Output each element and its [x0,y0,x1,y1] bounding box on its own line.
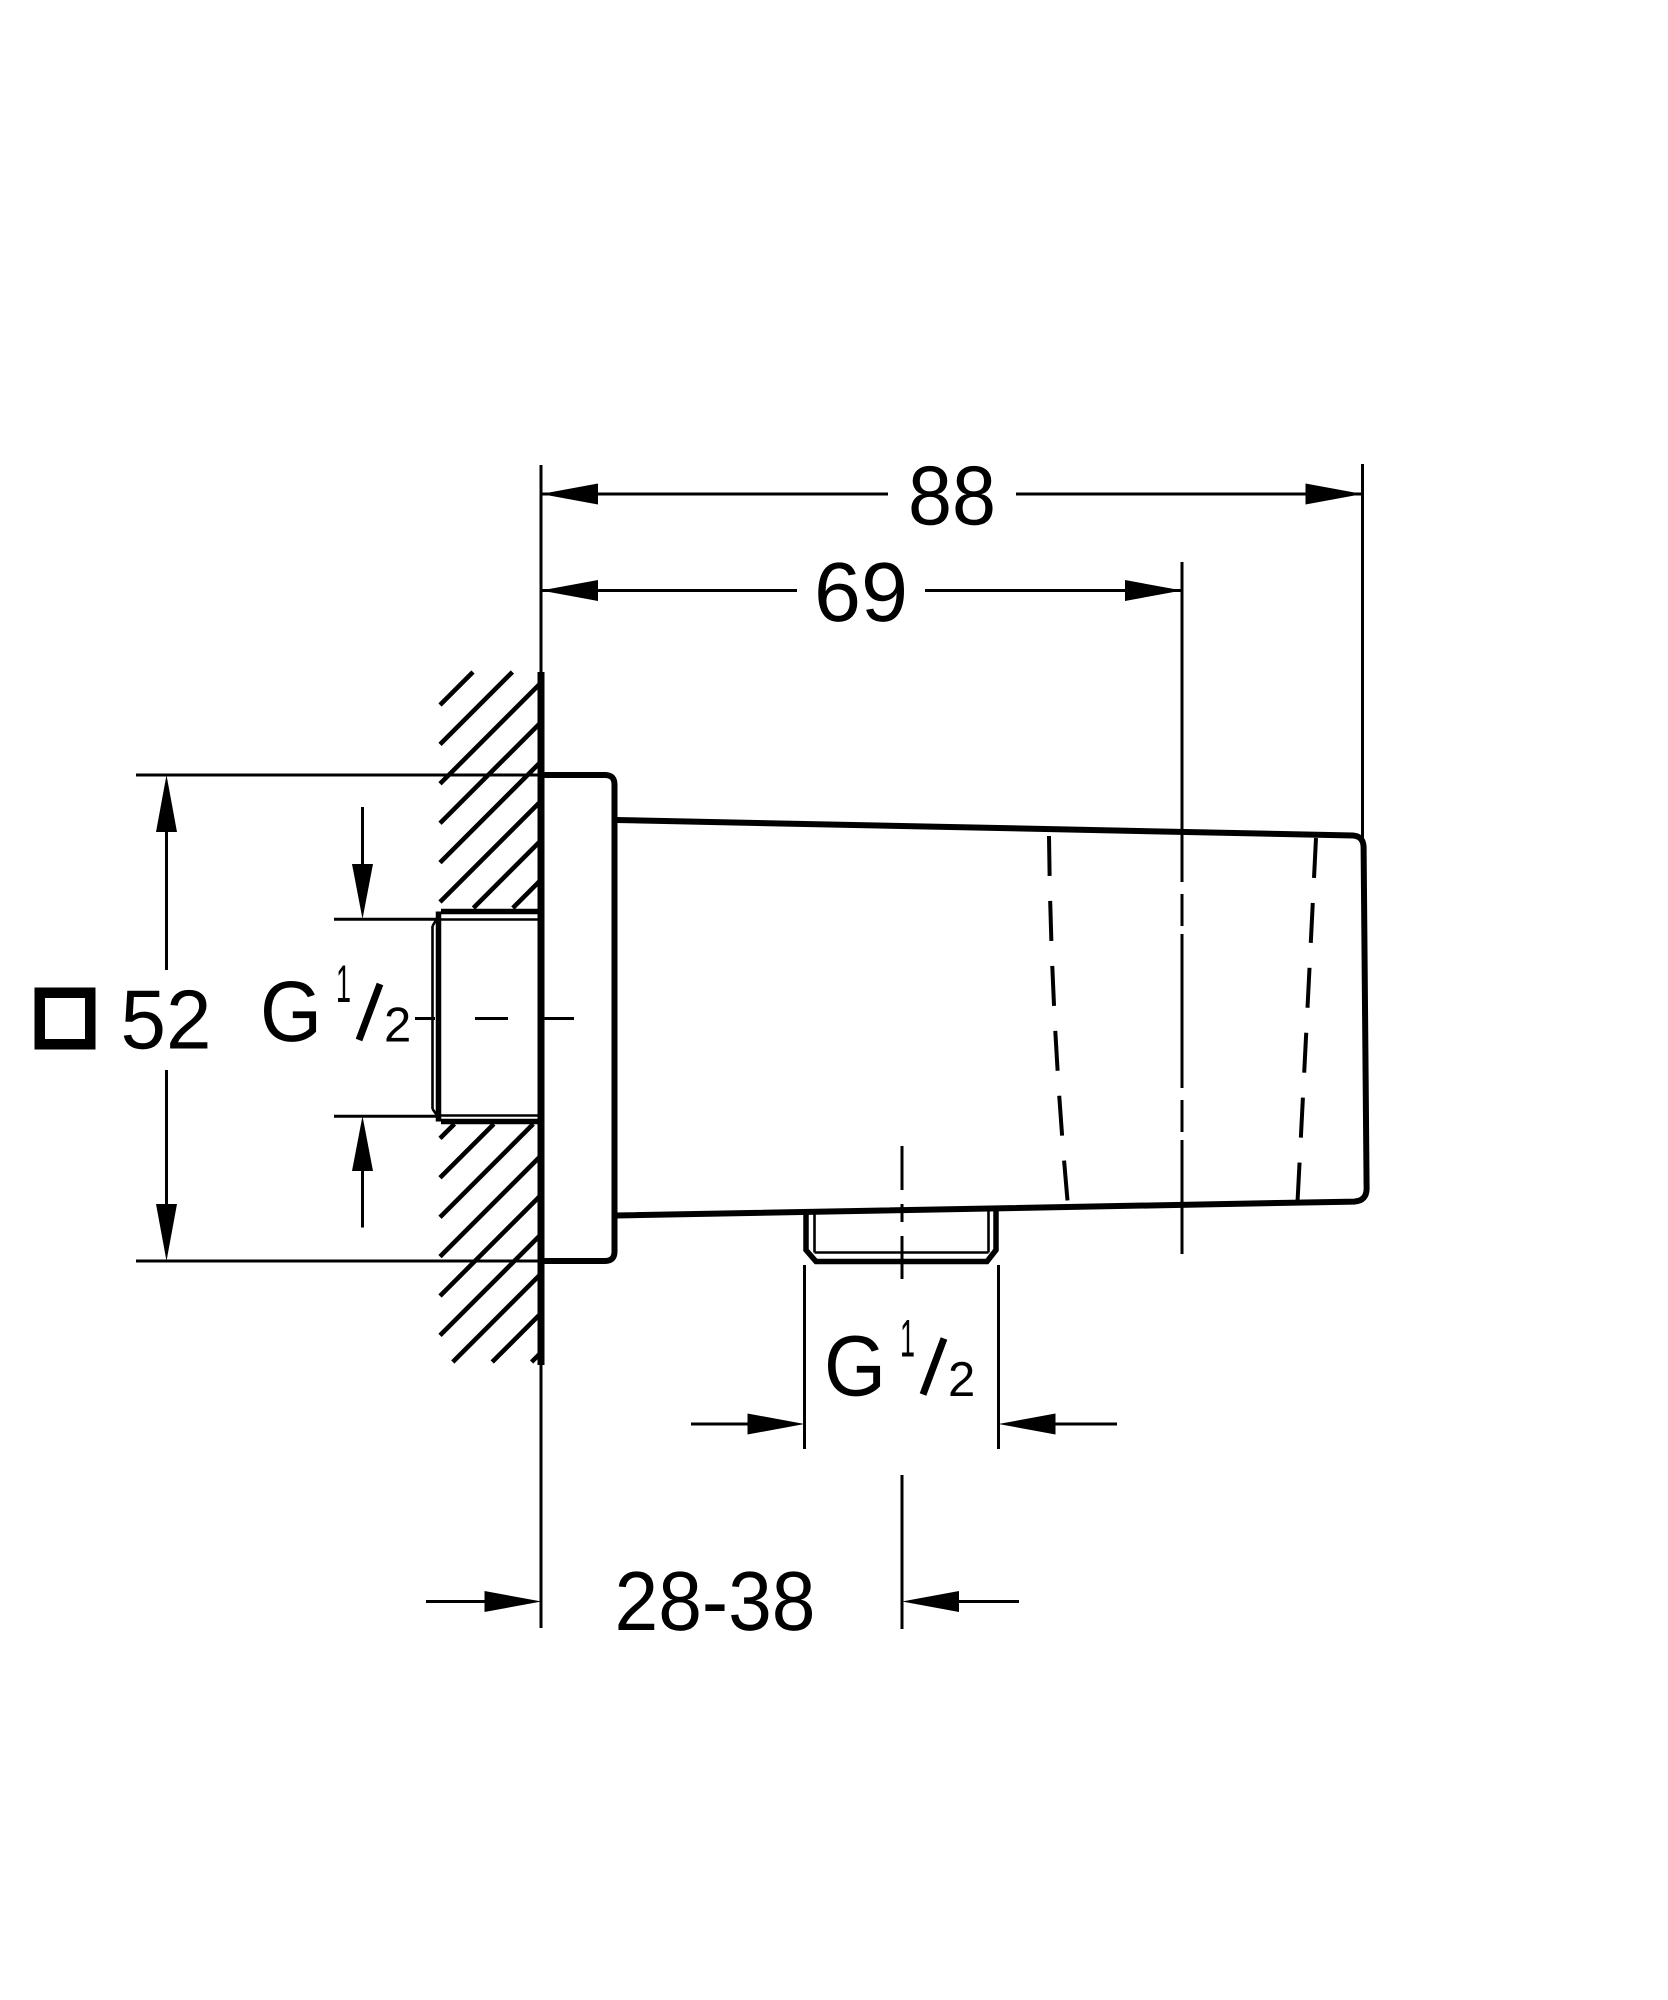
dimension 69 left arrowhead [541,580,598,601]
dimension 88 line right segment [1016,493,1363,496]
dimension 88 right extension line [1361,464,1364,842]
outlet width dimension left extension line [803,1265,806,1449]
thread OD dimension upper extension line [334,918,440,921]
outlet centerline upper [901,1146,904,1279]
dimension 88 line left segment [541,493,888,496]
outlet width dimension right arrow [999,1414,1056,1435]
thread OD dimension lower arrow and line [352,1116,373,1171]
dimension 88 left extension line [540,465,543,672]
dimension 69 right extension line (outlet holder centerline) [1181,562,1184,1254]
dimension 52 lower extension line [136,1260,541,1263]
dimension 52 upper extension line [136,774,541,777]
wall inlet thread root lines [433,912,542,1121]
thread OD dimension upper line and arrow [361,807,364,866]
label G 1/2 upper [260,955,411,1060]
outlet centerline lower [901,1475,904,1629]
svg-text:28-38: 28-38 [615,1554,816,1648]
svg-text:69: 69 [814,545,908,639]
dimension 28-38 left arrow [426,1600,487,1603]
svg-text:1: 1 [900,1310,915,1369]
svg-text:1: 1 [336,955,351,1014]
dimension 69 line right segment [925,589,1182,592]
svg-text:52: 52 [121,973,212,1067]
dimension 88 left arrowhead [541,484,598,505]
dimension 28-38 right arrow [902,1591,959,1612]
svg-text:2: 2 [948,1353,975,1407]
svg-text:2: 2 [384,999,411,1053]
square section symbol [40,993,91,1045]
holder cup hidden edge right [1298,838,1317,1202]
thread OD dimension lower extension line [334,1115,440,1118]
svg-text:G: G [260,964,322,1060]
holder cup hidden edge left [1049,836,1068,1206]
dimension 69 right arrowhead [1125,580,1182,601]
svg-text:88: 88 [908,449,996,543]
dimension 52 upper arrowhead and line [156,775,177,832]
bottom outlet thread root lines [815,1208,989,1253]
escutcheon wall plate [541,775,615,1261]
wall inlet thread stub outer edges [439,912,542,1122]
body cone outline [616,820,1367,1216]
dimension 88 right arrowhead [1306,484,1363,505]
outlet width dimension left arrow [691,1423,750,1426]
wall extension line below (28-38 left reference) [540,1365,543,1628]
inlet centerline [415,1017,574,1020]
bottom outlet stub outer edges [806,1209,996,1262]
wall face line [538,672,545,1365]
dimension 69 line left segment [541,589,797,592]
dimension 52 lower line and arrowhead [165,1070,168,1206]
svg-text:G: G [824,1319,886,1415]
outlet width dimension right extension line [997,1265,1000,1449]
label G 1/2 lower [824,1310,975,1415]
wall hatching [440,672,542,1362]
